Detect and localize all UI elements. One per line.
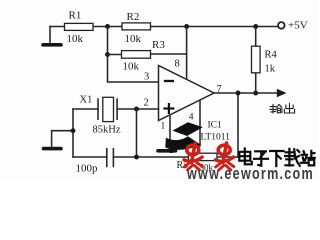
svg-text:R4: R4 xyxy=(265,50,278,61)
svg-text:3: 3 xyxy=(144,72,149,83)
svg-text:R2: R2 xyxy=(127,11,140,23)
svg-text:85kHz: 85kHz xyxy=(93,125,121,136)
svg-text:100p: 100p xyxy=(76,163,99,175)
svg-text:10k: 10k xyxy=(125,33,142,45)
svg-text:2: 2 xyxy=(144,98,149,109)
svg-text:4: 4 xyxy=(189,113,194,123)
svg-text:10k: 10k xyxy=(123,61,140,73)
svg-text:www.eeworm.com: www.eeworm.com xyxy=(186,165,314,181)
svg-text:1: 1 xyxy=(161,122,166,132)
svg-text:R1: R1 xyxy=(69,10,82,22)
svg-text:IC1: IC1 xyxy=(208,121,223,131)
svg-text:8: 8 xyxy=(175,59,180,70)
svg-text:1k: 1k xyxy=(265,64,276,75)
svg-text:LT1011: LT1011 xyxy=(201,133,231,143)
svg-text:10k: 10k xyxy=(67,33,84,45)
svg-text:+5V: +5V xyxy=(288,20,308,32)
svg-text:X1: X1 xyxy=(80,95,93,106)
svg-text:R3: R3 xyxy=(152,39,165,51)
